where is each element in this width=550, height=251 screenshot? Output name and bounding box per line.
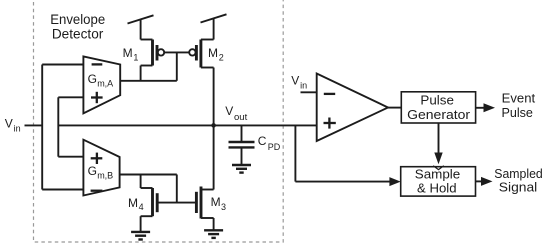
wire: gate line M4-M3: [157, 202, 196, 204]
transistor M4 (NMOS): [141, 175, 158, 232]
wire: riser to NMOS gate line: [176, 175, 178, 203]
svg-text:G: G: [88, 72, 97, 86]
svg-text:M: M: [208, 46, 218, 60]
svg-text:Envelope: Envelope: [50, 12, 105, 27]
wire: Vin to comparator minus input: [301, 91, 317, 93]
wire: left vertical bus (Vin to minus inputs): [41, 65, 43, 190]
svg-text:in: in: [14, 124, 21, 134]
svg-text:M: M: [211, 195, 221, 209]
svg-text:M: M: [128, 196, 138, 210]
block: Sample &amp; Hold: [401, 167, 476, 196]
svg-text:2: 2: [219, 52, 224, 62]
svg-text:4: 4: [139, 202, 144, 212]
node Vout junction: [211, 123, 216, 128]
wire: gate to drain riser (diode connection): [176, 52, 178, 80]
svg-text:Sample: Sample: [415, 166, 461, 181]
svg-text:1: 1: [133, 52, 138, 62]
wire: inner vertical bus (feedback to plus inputs): [57, 97, 59, 156]
svg-text:& Hold: & Hold: [417, 181, 457, 196]
svg-text:Event: Event: [502, 91, 536, 106]
VDD supply of M1: [140, 20, 142, 40]
svg-text:C: C: [258, 134, 267, 148]
transistor M2 (PMOS): [189, 40, 213, 126]
svg-text:Pulse: Pulse: [420, 92, 454, 107]
capacitor CPD: [229, 125, 255, 164]
wire: pulse generator output arrow: [476, 107, 484, 109]
block: Pulse Generator: [401, 92, 475, 123]
wire: branch from Vout line down to sample &amp; hold: [294, 125, 296, 181]
wire: Gm,A output to M1 drain / gates: [120, 80, 177, 82]
wire: minus input of Gm,B: [42, 189, 83, 191]
op-amp U1 (comparator): [317, 74, 388, 142]
wire: Vin input stub: [25, 124, 44, 126]
svg-text:in: in: [300, 81, 307, 91]
svg-text:V: V: [291, 74, 299, 88]
envelope detector dashed boundary: [34, 0, 284, 242]
wire: comparator output to pulse generator: [388, 107, 401, 109]
svg-text:PD: PD: [268, 142, 281, 152]
transistor M1 (PMOS): [141, 40, 165, 81]
svg-text:Detector: Detector: [52, 26, 104, 41]
svg-text:out: out: [234, 112, 248, 123]
svg-text:m,A: m,A: [97, 79, 113, 89]
VDD supply of M2: [213, 19, 215, 40]
svg-text:Generator: Generator: [407, 107, 471, 122]
wire: plus input of Gm,A: [58, 96, 83, 98]
svg-text:3: 3: [221, 202, 226, 212]
op-amp Gm,A (transconductor): [83, 56, 120, 113]
ground (under M4): [131, 232, 150, 240]
wire: pulse generator to sample &amp; hold (down arrow): [438, 123, 440, 154]
wire: gate line M1-M2: [164, 51, 189, 53]
wire: main horizontal net (Vout feedback line): [58, 124, 316, 126]
transistor M3 (NMOS): [196, 125, 213, 229]
wire: sample &amp; hold output arrow: [476, 180, 482, 182]
ground (under M3): [204, 230, 223, 238]
wire: plus input of Gm,B: [58, 156, 83, 158]
chevron notch at S&H top: [433, 166, 444, 170]
svg-text:Signal: Signal: [499, 180, 538, 195]
op-amp Gm,B (transconductor): [83, 140, 119, 196]
svg-text:M: M: [123, 46, 133, 60]
wire: Gm,B output to M4 drain / gates: [120, 174, 177, 176]
svg-text:Pulse: Pulse: [501, 105, 533, 120]
svg-text:G: G: [88, 164, 97, 178]
svg-text:V: V: [225, 104, 233, 118]
wire: minus input of Gm,A: [42, 64, 83, 66]
svg-text:m,B: m,B: [97, 171, 113, 181]
svg-text:V: V: [5, 117, 13, 131]
ground (under CPD): [232, 165, 251, 173]
